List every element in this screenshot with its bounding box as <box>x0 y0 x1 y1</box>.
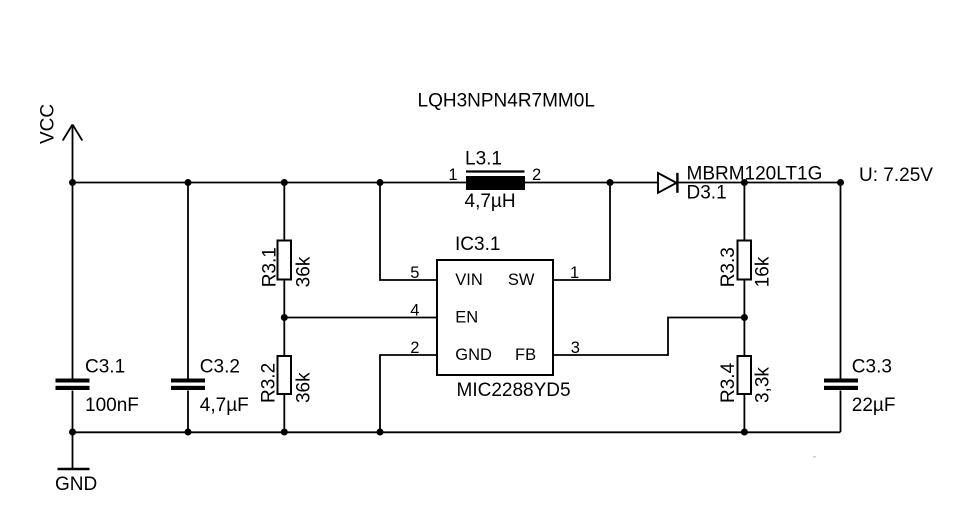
svg-text:GND: GND <box>55 474 97 495</box>
junction node ground rail at IC GND <box>377 429 384 436</box>
junction node ground rail at GND symbol <box>69 429 76 436</box>
svg-text:4: 4 <box>410 302 419 320</box>
wire R3.2 bottom <box>283 394 285 432</box>
wire R3.3 top <box>743 183 745 241</box>
svg-text:36k: 36k <box>294 256 315 287</box>
wire VIN pin 5 <box>380 183 437 281</box>
wire EN pin 4 <box>284 317 437 319</box>
wire top rail right (D3.1 cathode to output node) <box>678 182 841 184</box>
svg-text:R3.2: R3.2 <box>258 363 279 403</box>
wire C3.3 branch lower <box>840 391 842 433</box>
svg-text:GND: GND <box>455 346 492 364</box>
wire C3.2 branch upper <box>187 183 189 379</box>
wire C3.3 branch upper <box>840 183 842 379</box>
svg-text:R3.4: R3.4 <box>718 362 739 403</box>
junction node ground rail at R3.2 <box>281 429 288 436</box>
resistor R3.3 body <box>738 241 752 280</box>
svg-text:36k: 36k <box>294 372 315 403</box>
svg-text:C3.3: C3.3 <box>852 356 892 377</box>
wire R3.1 top <box>283 183 285 241</box>
wire R3.3 bottom to divider node <box>743 280 745 357</box>
junction node VCC rail at C3.2 <box>185 179 192 186</box>
junction node VCC rail at R3.1 <box>281 179 288 186</box>
svg-text:LQH3NPN4R7MM0L: LQH3NPN4R7MM0L <box>418 91 595 112</box>
wire SW pin 1 <box>553 183 610 281</box>
resistor R3.1 body <box>278 241 292 280</box>
svg-text:100nF: 100nF <box>85 395 139 416</box>
svg-text:1: 1 <box>570 264 579 282</box>
svg-text:3: 3 <box>571 339 580 357</box>
junction node VCC rail at C3.1 <box>69 179 76 186</box>
wire FB pin 3 to divider node <box>553 318 744 356</box>
wire R3.4 bottom <box>743 394 745 432</box>
svg-text:MIC2288YD5: MIC2288YD5 <box>457 380 571 401</box>
svg-text:SW: SW <box>508 271 535 289</box>
svg-text:L3.1: L3.1 <box>465 149 502 170</box>
svg-text:U: 7.25V: U: 7.25V <box>859 165 933 186</box>
svg-text:C3.2: C3.2 <box>200 356 240 377</box>
svg-text:4,7µH: 4,7µH <box>465 191 516 212</box>
wire R3.1 bottom to EN node <box>283 280 285 357</box>
junction node output at R3.3 <box>741 179 748 186</box>
svg-text:2: 2 <box>532 166 541 184</box>
svg-text:3,3k: 3,3k <box>753 367 774 403</box>
wire C3.1 branch lower <box>72 391 74 433</box>
junction node EN/R3.1/R3.2 <box>281 314 288 321</box>
svg-text:4,7µF: 4,7µF <box>200 395 249 416</box>
svg-text:FB: FB <box>515 346 536 364</box>
svg-text:D3.1: D3.1 <box>687 183 727 204</box>
svg-text:EN: EN <box>455 309 478 327</box>
capacitor C3.3 body <box>824 379 858 391</box>
junction node output at C3.3 <box>837 179 844 186</box>
svg-text:1: 1 <box>448 166 457 184</box>
junction node FB divider <box>741 314 748 321</box>
svg-text:2: 2 <box>410 339 419 357</box>
inductor L3.1 body <box>466 172 525 191</box>
junction node ground rail at C3.2 <box>185 429 192 436</box>
junction node ground rail at R3.4 <box>741 429 748 436</box>
stray speck artifact <box>813 456 816 458</box>
wire C3.2 branch lower <box>187 391 189 433</box>
capacitor C3.2 body <box>171 379 205 391</box>
op-amp IC3.1 box (MIC2288 regulator) <box>437 260 553 375</box>
wire top rail left (VCC node to L3.1 pin 1) <box>73 182 467 184</box>
wire bottom ground rail <box>73 431 841 433</box>
svg-text:R3.1: R3.1 <box>259 247 280 287</box>
junction node SW/L3.1/D3.1 <box>607 179 614 186</box>
svg-text:16k: 16k <box>753 256 774 287</box>
resistor R3.2 body <box>278 356 292 394</box>
diode D3.1 body <box>658 173 677 193</box>
wire top rail middle (L3.1 pin 2 to D3.1 anode) <box>525 182 658 184</box>
capacitor C3.1 body <box>56 379 90 391</box>
svg-text:IC3.1: IC3.1 <box>455 234 500 255</box>
svg-text:VCC: VCC <box>38 104 59 144</box>
svg-text:VIN: VIN <box>455 271 483 289</box>
svg-text:5: 5 <box>410 264 419 282</box>
wire GND pin 2 <box>380 355 437 432</box>
ground symbol <box>58 432 90 469</box>
svg-text:C3.1: C3.1 <box>85 356 125 377</box>
junction node VCC rail at VIN <box>377 179 384 186</box>
resistor R3.4 body <box>738 356 752 394</box>
svg-text:R3.3: R3.3 <box>718 247 739 287</box>
svg-text:22µF: 22µF <box>852 395 896 416</box>
net VCC symbol arrow <box>63 125 83 183</box>
wire C3.1 branch upper <box>72 183 74 379</box>
